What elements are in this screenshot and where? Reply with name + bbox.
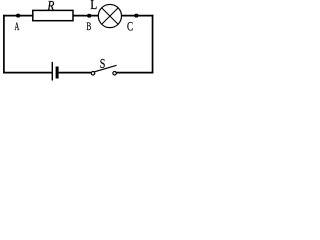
wire top (A to lamp left) xyxy=(3,15,98,17)
wire left side xyxy=(3,15,5,74)
switch blade xyxy=(94,65,116,72)
node B dot xyxy=(87,14,91,18)
wire top right (lamp right to top-right corner) xyxy=(122,15,154,17)
wire bottom left (corner to battery) xyxy=(3,72,52,74)
lamp X diagonal 1 xyxy=(102,8,118,24)
node C dot xyxy=(134,14,138,18)
svg-text:L: L xyxy=(90,0,97,12)
svg-text:S: S xyxy=(100,56,106,72)
battery long plate xyxy=(51,62,53,81)
svg-text:R: R xyxy=(46,0,54,13)
svg-text:B: B xyxy=(86,21,91,34)
node A dot xyxy=(16,14,20,18)
wire bottom right (switch to corner) xyxy=(117,72,154,74)
svg-text:C: C xyxy=(127,21,133,35)
svg-text:A: A xyxy=(14,20,19,33)
switch S right terminal xyxy=(113,72,117,76)
wire bottom middle (battery to switch) xyxy=(59,72,92,74)
battery short thick plate xyxy=(56,67,59,79)
wire right side xyxy=(152,15,154,74)
resistor R box xyxy=(33,10,73,20)
switch S left terminal xyxy=(91,72,95,76)
lamp X diagonal 2 xyxy=(102,8,118,24)
lamp L circle xyxy=(98,4,121,27)
